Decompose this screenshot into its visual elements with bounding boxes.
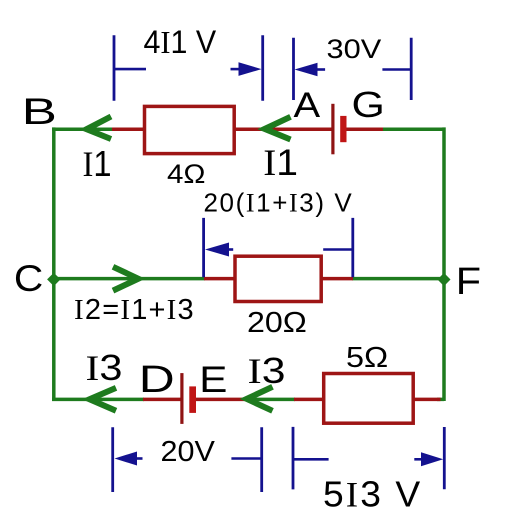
svg-text:F: F [456, 261, 481, 303]
svg-text:30V: 30V [327, 35, 382, 65]
svg-text:20V: 20V [161, 436, 216, 468]
svg-text:E: E [199, 359, 227, 400]
svg-text:4Ω: 4Ω [167, 158, 206, 189]
svg-text:I3: I3 [86, 348, 123, 388]
svg-text:B: B [22, 91, 57, 132]
svg-text:D: D [139, 359, 175, 401]
svg-text:5I3 V: 5I3 V [323, 474, 422, 514]
svg-text:20Ω: 20Ω [247, 306, 307, 338]
svg-text:I2=I1+I3: I2=I1+I3 [74, 294, 195, 326]
svg-text:C: C [14, 259, 43, 300]
svg-text:A: A [294, 85, 321, 124]
svg-text:G: G [352, 85, 385, 125]
svg-text:I3: I3 [248, 351, 286, 391]
svg-text:I1: I1 [83, 145, 112, 185]
svg-text:I1: I1 [263, 143, 298, 184]
svg-text:4I1 V: 4I1 V [144, 24, 217, 60]
svg-text:20(I1+I3) V: 20(I1+I3) V [204, 188, 354, 218]
svg-text:5Ω: 5Ω [346, 341, 388, 374]
